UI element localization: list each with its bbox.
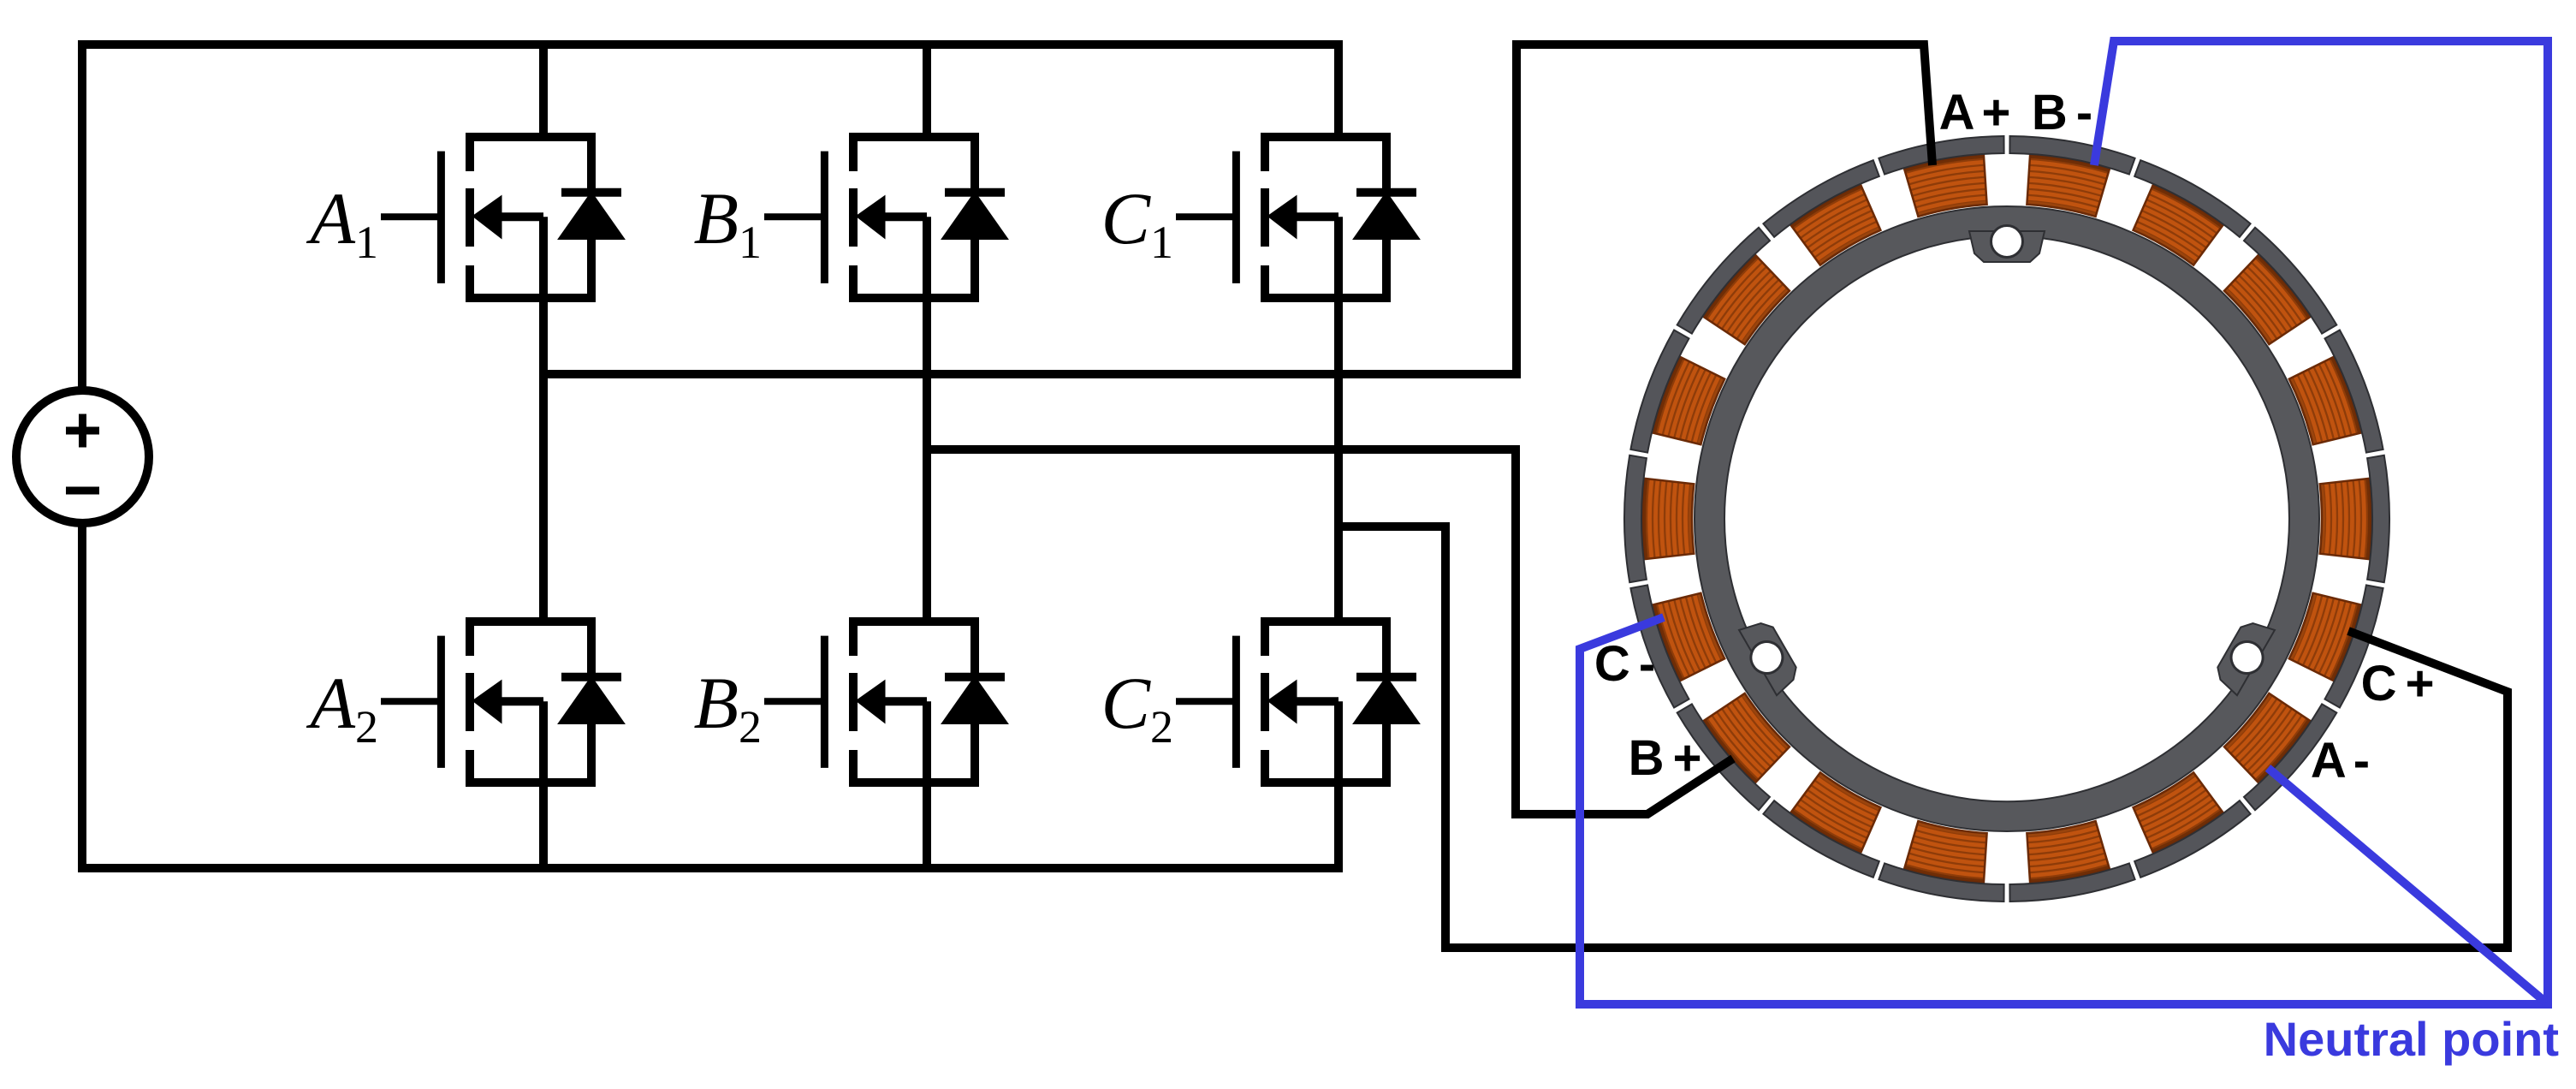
minus sign	[66, 487, 99, 495]
phase B output wire to motor terminal B+	[927, 445, 1733, 814]
DC source positive rail (top)	[78, 40, 1338, 49]
svg-text:A +: A +	[1939, 85, 2009, 140]
stator inner yoke ring	[1695, 206, 2319, 831]
phase C output wire to motor terminal C+	[1338, 522, 2508, 952]
DC negative rail (bottom)	[78, 864, 1338, 872]
transistor B1 with body diode	[764, 133, 1007, 302]
plus sign	[66, 414, 99, 448]
mounting tab with hole at 12 o'clock	[1969, 226, 2045, 263]
transistor A2 with body diode	[381, 617, 624, 787]
blue neutral branch to A-	[2268, 768, 2546, 1003]
phase leg C wires	[1334, 40, 1343, 872]
svg-text:B +: B +	[1629, 730, 1701, 786]
transistor B2 with body diode	[764, 617, 1007, 787]
mounting tab with hole at 4 o'clock	[2211, 615, 2280, 698]
left rail lower wire	[78, 523, 86, 868]
phase leg B wires	[923, 45, 931, 872]
blue neutral wire from C-	[1580, 41, 2548, 1004]
18 copper coils	[1642, 154, 2371, 884]
svg-text:C +: C +	[2361, 656, 2433, 711]
svg-text:A -: A -	[2311, 733, 2368, 788]
left rail upper wire	[78, 40, 86, 390]
transistor C2 with body diode	[1176, 617, 1419, 787]
coil edges	[2027, 155, 2110, 217]
svg-text:B -: B -	[2032, 85, 2091, 140]
18 outer arc segments	[2009, 136, 2134, 175]
mounting tab with hole at 8 o'clock	[1734, 615, 1803, 698]
stator motor ring	[1624, 136, 2389, 902]
transistor A1 with body diode	[381, 133, 624, 302]
phase A output wire to motor terminal A+	[543, 45, 1932, 378]
transistor C1 with body diode	[1176, 133, 1419, 302]
phase leg A wires	[539, 40, 548, 872]
svg-text:C -: C -	[1594, 636, 1653, 692]
DC voltage source V1	[16, 390, 149, 523]
svg-text:Neutral point: Neutral point	[2264, 1012, 2559, 1066]
